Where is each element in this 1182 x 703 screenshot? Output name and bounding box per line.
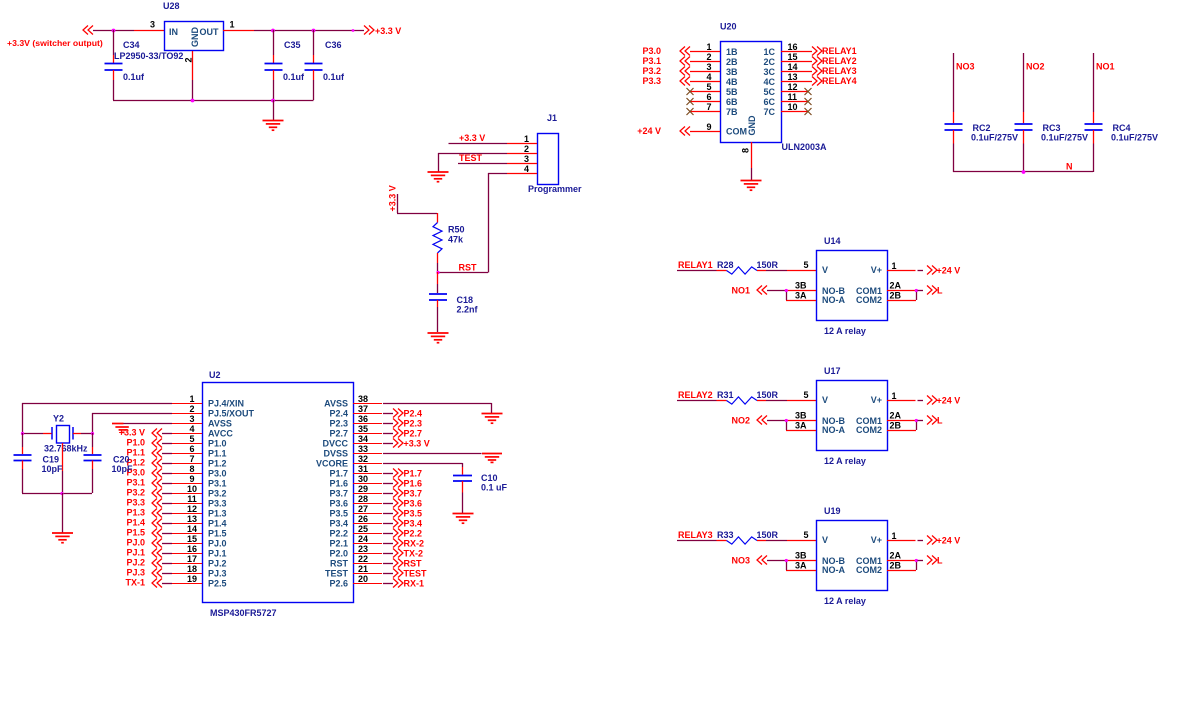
svg-text:R28: R28 bbox=[717, 260, 734, 270]
svg-text:25: 25 bbox=[358, 524, 368, 534]
wire J1.4 to RST node bbox=[438, 173, 507, 273]
net P3.4 from U2 bbox=[383, 519, 422, 529]
J1 pin 1 bbox=[507, 134, 537, 144]
U2 pin 27 (P3.5) bbox=[353, 504, 382, 514]
wire U2 pin38 AVSS to ground bbox=[383, 403, 492, 414]
svg-text:P3.3: P3.3 bbox=[208, 499, 227, 509]
svg-text:C34: C34 bbox=[123, 40, 140, 50]
svg-text:P1.3: P1.3 bbox=[126, 508, 145, 518]
svg-text:P3.5: P3.5 bbox=[404, 509, 423, 519]
U17 pin 3B bbox=[786, 411, 816, 421]
net P3.6 from U2 bbox=[383, 499, 422, 509]
svg-text:P1.7: P1.7 bbox=[404, 469, 423, 479]
net TX-1 to U2 pin 19 bbox=[125, 578, 172, 588]
wire COM to L bbox=[915, 556, 943, 571]
net P2.3 from U2 bbox=[383, 419, 422, 429]
svg-text:37: 37 bbox=[358, 404, 368, 414]
svg-text:C20: C20 bbox=[113, 455, 130, 465]
svg-text:COM2: COM2 bbox=[856, 425, 882, 435]
svg-text:38: 38 bbox=[358, 394, 368, 404]
svg-text:11: 11 bbox=[187, 494, 197, 504]
U2 pin 24 (P2.1) bbox=[353, 534, 382, 544]
capacitor RC2 bbox=[945, 112, 1019, 172]
node crystal gnd junction bbox=[60, 492, 63, 495]
svg-text:PJ.5/XOUT: PJ.5/XOUT bbox=[208, 409, 255, 419]
U19 pin 2A bbox=[887, 551, 916, 561]
svg-text:P2.0: P2.0 bbox=[329, 549, 348, 559]
capacitor C18 bbox=[429, 272, 479, 332]
svg-text:3: 3 bbox=[150, 20, 155, 30]
svg-text:C10: C10 bbox=[481, 473, 498, 483]
capacitor C10 bbox=[453, 467, 508, 513]
svg-text:3: 3 bbox=[524, 154, 529, 164]
U20 pin 8 (GND) bbox=[741, 142, 752, 180]
net label RELAY2 bbox=[677, 390, 717, 401]
net P3.1 to U2 pin 9 bbox=[126, 478, 172, 488]
net P3.3 to U2 pin 11 bbox=[126, 498, 172, 508]
svg-text:LP2950-33/TO92: LP2950-33/TO92 bbox=[114, 51, 183, 61]
ground bus wire bbox=[113, 100, 314, 102]
svg-text:4B: 4B bbox=[726, 77, 738, 87]
wire U2 pin2 to crystal bbox=[92, 413, 172, 433]
svg-text:COM2: COM2 bbox=[856, 295, 882, 305]
svg-text:1: 1 bbox=[892, 261, 897, 271]
svg-text:C35: C35 bbox=[284, 40, 301, 50]
svg-text:P3.6: P3.6 bbox=[329, 499, 348, 509]
power stub +3.3 V (rotated) bbox=[388, 185, 398, 213]
svg-text:R33: R33 bbox=[717, 530, 734, 540]
svg-text:C19: C19 bbox=[43, 455, 60, 465]
U2 pin 9 (P3.1) bbox=[172, 474, 202, 484]
svg-text:L: L bbox=[937, 556, 943, 566]
net P3.7 from U2 bbox=[383, 489, 422, 499]
svg-text:NO1: NO1 bbox=[1096, 62, 1115, 72]
svg-text:RELAY2: RELAY2 bbox=[678, 390, 713, 400]
net P3.0 input bbox=[642, 46, 690, 56]
net P3.5 from U2 bbox=[383, 509, 422, 519]
svg-text:V: V bbox=[822, 535, 828, 545]
U2 pin 7 (P1.2) bbox=[172, 454, 202, 464]
svg-text:P3.6: P3.6 bbox=[404, 499, 423, 509]
svg-text:+3.3 V: +3.3 V bbox=[459, 133, 485, 143]
svg-text:5: 5 bbox=[803, 530, 808, 540]
relay U19 bbox=[817, 506, 888, 606]
net P3.2 to U2 pin 10 bbox=[126, 488, 172, 498]
svg-text:P2.4: P2.4 bbox=[329, 409, 348, 419]
U19 pin 3B bbox=[786, 551, 816, 561]
capacitor C20 bbox=[84, 433, 134, 493]
no-connect pin 5 bbox=[687, 88, 694, 95]
relay U14 bbox=[817, 236, 888, 336]
svg-text:N: N bbox=[1066, 162, 1073, 172]
node OUT junction bbox=[271, 29, 354, 33]
svg-text:Programmer: Programmer bbox=[528, 184, 582, 194]
svg-text:47k: 47k bbox=[448, 235, 464, 245]
resistor R31 150R bbox=[717, 390, 779, 404]
svg-text:4C: 4C bbox=[763, 77, 775, 87]
svg-text:PJ.1: PJ.1 bbox=[126, 548, 145, 558]
U19 pin 5 bbox=[803, 530, 808, 540]
svg-text:R31: R31 bbox=[717, 390, 734, 400]
svg-text:28: 28 bbox=[358, 494, 368, 504]
svg-text:3: 3 bbox=[706, 62, 711, 72]
net +24 V to COM bbox=[637, 126, 690, 136]
wire U2 pin1 to crystal bbox=[22, 403, 172, 433]
svg-text:NO-A: NO-A bbox=[822, 425, 845, 435]
svg-text:3A: 3A bbox=[795, 291, 807, 301]
resistor R50 bbox=[433, 223, 465, 254]
svg-text:PJ.0: PJ.0 bbox=[208, 539, 227, 549]
svg-text:150R: 150R bbox=[757, 530, 779, 540]
ground (crystal) bbox=[52, 493, 73, 543]
svg-text:NO2: NO2 bbox=[1026, 62, 1045, 72]
net P3.0 to U2 pin 8 bbox=[126, 468, 172, 478]
U2 pin 16 (PJ.1) bbox=[172, 544, 202, 554]
svg-text:8: 8 bbox=[189, 464, 194, 474]
svg-text:+3.3V (switcher output): +3.3V (switcher output) bbox=[7, 38, 103, 48]
svg-text:1: 1 bbox=[892, 391, 897, 401]
U14 pin 2A bbox=[887, 281, 916, 291]
svg-text:1: 1 bbox=[524, 134, 529, 144]
svg-text:7: 7 bbox=[189, 454, 194, 464]
U20 pin 9 (COM) bbox=[690, 122, 720, 132]
U14 pin 1 to +24 V bbox=[887, 261, 960, 276]
svg-text:0.1uf: 0.1uf bbox=[323, 72, 345, 82]
net RX-1 from U2 bbox=[383, 579, 424, 589]
svg-text:V+: V+ bbox=[871, 535, 882, 545]
svg-text:7: 7 bbox=[706, 102, 711, 112]
net NO2 wire bbox=[1024, 53, 1045, 112]
svg-text:16: 16 bbox=[788, 42, 798, 52]
svg-text:32.768kHz: 32.768kHz bbox=[44, 444, 88, 454]
svg-text:RELAY3: RELAY3 bbox=[678, 530, 713, 540]
U2 pin 18 (PJ.3) bbox=[172, 564, 202, 574]
svg-text:P3.7: P3.7 bbox=[329, 489, 348, 499]
svg-text:20: 20 bbox=[358, 574, 368, 584]
svg-text:P3.4: P3.4 bbox=[329, 519, 348, 529]
svg-text:8: 8 bbox=[741, 148, 751, 153]
wire J1.2 to ground bbox=[438, 153, 507, 172]
svg-text:18: 18 bbox=[187, 564, 197, 574]
wire NO3 to 3B/3A bbox=[731, 556, 787, 571]
svg-text:P1.2: P1.2 bbox=[208, 459, 227, 469]
microcontroller U2 MSP430FR5727 bbox=[203, 370, 354, 618]
svg-text:3C: 3C bbox=[763, 67, 775, 77]
svg-text:2: 2 bbox=[706, 52, 711, 62]
U2 pin 1 (PJ.4/XIN) bbox=[172, 394, 202, 404]
svg-text:9: 9 bbox=[706, 122, 711, 132]
svg-text:7C: 7C bbox=[763, 107, 775, 117]
svg-text:15: 15 bbox=[187, 534, 197, 544]
U20 pin 5 (5B) bbox=[690, 82, 720, 92]
U2 pin 21 (TEST) bbox=[353, 564, 382, 574]
U20 pin 4 (4B) bbox=[690, 72, 720, 82]
svg-text:2B: 2B bbox=[890, 421, 902, 431]
ground (J1) bbox=[428, 172, 449, 182]
net P1.5 to U2 pin 14 bbox=[126, 528, 172, 538]
resistor R28 150R bbox=[717, 260, 779, 274]
U2 pin 38 (AVSS) bbox=[353, 394, 382, 404]
svg-text:2B: 2B bbox=[890, 561, 902, 571]
wire U28 OUT to +3.3V rail bbox=[223, 30, 364, 32]
U2 pin 25 (P2.2) bbox=[353, 524, 382, 534]
U28 pin 3 bbox=[150, 20, 155, 30]
U2 pin 33 (DVSS) bbox=[353, 444, 382, 454]
svg-text:+24 V: +24 V bbox=[937, 266, 961, 276]
svg-text:5B: 5B bbox=[726, 87, 738, 97]
svg-text:12 A relay: 12 A relay bbox=[824, 456, 866, 466]
svg-text:OUT: OUT bbox=[200, 27, 220, 37]
U20 pin 2 (2B) bbox=[690, 52, 720, 62]
svg-text:DVCC: DVCC bbox=[322, 439, 348, 449]
svg-text:P3.1: P3.1 bbox=[126, 478, 145, 488]
svg-text:VCORE: VCORE bbox=[316, 459, 348, 469]
svg-text:P1.0: P1.0 bbox=[126, 438, 145, 448]
net TEST from U2 bbox=[383, 569, 427, 579]
svg-text:P2.7: P2.7 bbox=[329, 429, 348, 439]
ground (pin33 DVSS) bbox=[383, 454, 502, 463]
svg-text:ULN2003A: ULN2003A bbox=[782, 142, 828, 152]
svg-text:26: 26 bbox=[358, 514, 368, 524]
U20 pin 12 (5C) bbox=[781, 82, 808, 92]
svg-text:PJ.4/XIN: PJ.4/XIN bbox=[208, 399, 244, 409]
svg-text:3B: 3B bbox=[795, 411, 807, 421]
svg-text:150R: 150R bbox=[757, 260, 779, 270]
svg-text:V: V bbox=[822, 395, 828, 405]
svg-text:GND: GND bbox=[747, 115, 757, 136]
svg-text:1: 1 bbox=[230, 20, 235, 30]
svg-text:+3.3 V: +3.3 V bbox=[404, 439, 430, 449]
U2 pin 20 (P2.6) bbox=[353, 574, 382, 584]
svg-text:P1.5: P1.5 bbox=[126, 528, 145, 538]
svg-text:6B: 6B bbox=[726, 97, 738, 107]
svg-text:2B: 2B bbox=[890, 291, 902, 301]
svg-text:L: L bbox=[937, 416, 943, 426]
svg-text:27: 27 bbox=[358, 504, 368, 514]
svg-text:U17: U17 bbox=[824, 366, 841, 376]
U2 pin 13 (P1.4) bbox=[172, 514, 202, 524]
svg-text:P3.3: P3.3 bbox=[642, 76, 661, 86]
svg-text:5: 5 bbox=[803, 390, 808, 400]
svg-text:RC3: RC3 bbox=[1043, 123, 1061, 133]
svg-text:17: 17 bbox=[187, 554, 197, 564]
U19 pin 2B bbox=[887, 561, 916, 571]
svg-text:2B: 2B bbox=[726, 57, 738, 67]
svg-text:PJ.3: PJ.3 bbox=[126, 568, 145, 578]
svg-text:10pF: 10pF bbox=[42, 464, 64, 474]
no-connect pin 7 bbox=[687, 108, 694, 115]
svg-text:6: 6 bbox=[706, 92, 711, 102]
net NO1 wire bbox=[1094, 53, 1115, 112]
wire R31 to relay pin 5 bbox=[757, 400, 816, 402]
U2 pin 6 (P1.1) bbox=[172, 444, 202, 454]
U20 pin 16 (1C) bbox=[781, 42, 812, 52]
resistor R33 150R bbox=[717, 530, 779, 544]
power net label +3.3V (switcher output) bbox=[7, 26, 103, 49]
U20 pin 1 (1B) bbox=[690, 42, 720, 52]
net label RELAY3 bbox=[677, 530, 717, 541]
net RELAY2 output bbox=[812, 56, 857, 66]
driver U20 ULN2003A bbox=[720, 22, 827, 153]
net NO3 wire bbox=[954, 53, 975, 112]
net label RST bbox=[459, 263, 478, 273]
J1 pin 4 bbox=[507, 164, 537, 174]
svg-text:PJ.2: PJ.2 bbox=[126, 558, 145, 568]
svg-text:36: 36 bbox=[358, 414, 368, 424]
svg-text:4: 4 bbox=[189, 424, 194, 434]
svg-text:10: 10 bbox=[788, 102, 798, 112]
U2 pin 35 (P2.7) bbox=[353, 424, 382, 434]
wire U2 pin32 VCORE to C10 bbox=[383, 463, 463, 467]
U20 pin 14 (3C) bbox=[781, 62, 812, 72]
svg-text:MSP430FR5727: MSP430FR5727 bbox=[210, 608, 277, 618]
net +3.3 V to J1.1 bbox=[449, 133, 508, 144]
svg-text:2A: 2A bbox=[890, 411, 902, 421]
wire NO1 to 3B/3A bbox=[731, 286, 787, 301]
svg-text:12: 12 bbox=[788, 82, 798, 92]
U20 pin 7 (7B) bbox=[690, 102, 720, 112]
svg-text:6C: 6C bbox=[763, 97, 775, 107]
svg-text:RELAY2: RELAY2 bbox=[822, 56, 857, 66]
J1 pin 2 bbox=[507, 144, 537, 154]
svg-text:P1.3: P1.3 bbox=[208, 509, 227, 519]
power port +3.3 V bbox=[364, 26, 401, 37]
net P3.2 input bbox=[642, 66, 690, 76]
wire crystal case to ground bus bbox=[62, 443, 64, 493]
svg-text:3A: 3A bbox=[795, 561, 807, 571]
svg-text:U19: U19 bbox=[824, 506, 841, 516]
svg-text:34: 34 bbox=[358, 434, 368, 444]
U17 pin 2A bbox=[887, 411, 916, 421]
svg-text:PJ.1: PJ.1 bbox=[208, 549, 227, 559]
voltage regulator U28 bbox=[163, 1, 224, 51]
svg-text:RST: RST bbox=[404, 559, 423, 569]
svg-text:PJ.2: PJ.2 bbox=[208, 559, 227, 569]
svg-text:P2.7: P2.7 bbox=[404, 429, 423, 439]
svg-text:7B: 7B bbox=[726, 107, 738, 117]
ground (C18) bbox=[428, 333, 449, 343]
wire R33 to relay pin 5 bbox=[757, 540, 816, 542]
U2 pin 11 (P3.3) bbox=[172, 494, 202, 504]
svg-text:2A: 2A bbox=[890, 551, 902, 561]
svg-text:P1.1: P1.1 bbox=[208, 449, 227, 459]
svg-text:PJ.0: PJ.0 bbox=[126, 538, 145, 548]
U14 pin 5 bbox=[803, 260, 808, 270]
svg-text:31: 31 bbox=[358, 464, 368, 474]
svg-text:NO1: NO1 bbox=[731, 286, 750, 296]
svg-text:5: 5 bbox=[803, 260, 808, 270]
svg-text:1C: 1C bbox=[763, 47, 775, 57]
svg-text:2.2nf: 2.2nf bbox=[457, 305, 479, 315]
svg-text:PJ.3: PJ.3 bbox=[208, 569, 227, 579]
J1 pin 3 bbox=[507, 154, 537, 164]
net P2.7 from U2 bbox=[383, 429, 422, 439]
U2 pin 37 (P2.4) bbox=[353, 404, 382, 414]
svg-text:1: 1 bbox=[892, 531, 897, 541]
U2 pin 29 (P3.7) bbox=[353, 484, 382, 494]
node crystal left bbox=[21, 432, 24, 435]
svg-text:C36: C36 bbox=[325, 40, 342, 50]
svg-text:TEST: TEST bbox=[325, 569, 349, 579]
svg-text:U20: U20 bbox=[720, 22, 737, 32]
svg-text:2: 2 bbox=[524, 144, 529, 154]
svg-text:P1.4: P1.4 bbox=[126, 518, 145, 528]
svg-text:2: 2 bbox=[189, 404, 194, 414]
svg-text:3A: 3A bbox=[795, 421, 807, 431]
node gnd junction 2 bbox=[271, 99, 275, 103]
net PJ.2 to U2 pin 17 bbox=[126, 558, 172, 568]
ground (U2 pin3 AVSS) bbox=[112, 424, 172, 433]
svg-text:U28: U28 bbox=[163, 1, 180, 11]
svg-text:P2.2: P2.2 bbox=[404, 529, 423, 539]
svg-text:+3.3 V: +3.3 V bbox=[388, 185, 398, 211]
U2 pin 8 (P3.0) bbox=[172, 464, 202, 474]
svg-text:4: 4 bbox=[524, 164, 529, 174]
svg-text:V+: V+ bbox=[871, 395, 882, 405]
wire crystal ground bus bbox=[22, 493, 92, 495]
svg-text:24: 24 bbox=[358, 534, 368, 544]
net P1.6 from U2 bbox=[383, 479, 422, 489]
U14 pin 3A bbox=[786, 291, 816, 301]
wire NO2 to 3B/3A bbox=[731, 416, 787, 431]
svg-text:19: 19 bbox=[187, 574, 197, 584]
node crystal right bbox=[91, 432, 94, 435]
net P3.3 input bbox=[642, 76, 690, 86]
net RELAY3 output bbox=[812, 66, 857, 76]
svg-text:COM2: COM2 bbox=[856, 565, 882, 575]
svg-text:AVSS: AVSS bbox=[208, 419, 232, 429]
U20 pin 15 (2C) bbox=[781, 52, 812, 62]
svg-text:NO-A: NO-A bbox=[822, 565, 845, 575]
U20 pin 11 (6C) bbox=[781, 92, 808, 102]
svg-text:P3.5: P3.5 bbox=[329, 509, 348, 519]
svg-text:GND: GND bbox=[190, 27, 200, 48]
svg-text:9: 9 bbox=[189, 474, 194, 484]
U17 pin 1 to +24 V bbox=[887, 391, 960, 406]
svg-text:P1.6: P1.6 bbox=[404, 479, 423, 489]
U19 pin 3A bbox=[786, 561, 816, 571]
U14 pin 3B bbox=[786, 281, 816, 291]
svg-text:0.1uF/275V: 0.1uF/275V bbox=[1041, 133, 1088, 143]
svg-text:1B: 1B bbox=[726, 47, 738, 57]
svg-text:10: 10 bbox=[187, 484, 197, 494]
capacitor RC3 bbox=[1015, 112, 1089, 172]
svg-text:15: 15 bbox=[788, 52, 798, 62]
svg-text:4: 4 bbox=[706, 72, 711, 82]
svg-text:23: 23 bbox=[358, 544, 368, 554]
net RELAY1 output bbox=[812, 46, 857, 56]
svg-text:P3.2: P3.2 bbox=[208, 489, 227, 499]
svg-text:RC2: RC2 bbox=[973, 123, 991, 133]
net PJ.1 to U2 pin 16 bbox=[126, 548, 172, 558]
ground (U28 area) bbox=[263, 100, 284, 130]
U2 pin 26 (P3.4) bbox=[353, 514, 382, 524]
svg-text:21: 21 bbox=[358, 564, 368, 574]
svg-text:R50: R50 bbox=[448, 225, 465, 235]
U2 pin 2 (PJ.5/XOUT) bbox=[172, 404, 202, 414]
svg-text:5: 5 bbox=[706, 82, 711, 92]
svg-text:2A: 2A bbox=[890, 281, 902, 291]
svg-text:2C: 2C bbox=[763, 57, 775, 67]
svg-text:+24 V: +24 V bbox=[937, 396, 961, 406]
svg-text:16: 16 bbox=[187, 544, 197, 554]
svg-text:0.1 uF: 0.1 uF bbox=[481, 483, 508, 493]
node input junction bbox=[112, 29, 116, 33]
svg-text:P2.2: P2.2 bbox=[329, 529, 348, 539]
U2 pin 36 (P2.3) bbox=[353, 414, 382, 424]
net P1.1 to U2 pin 6 bbox=[126, 448, 172, 458]
net P1.3 to U2 pin 12 bbox=[126, 508, 172, 518]
